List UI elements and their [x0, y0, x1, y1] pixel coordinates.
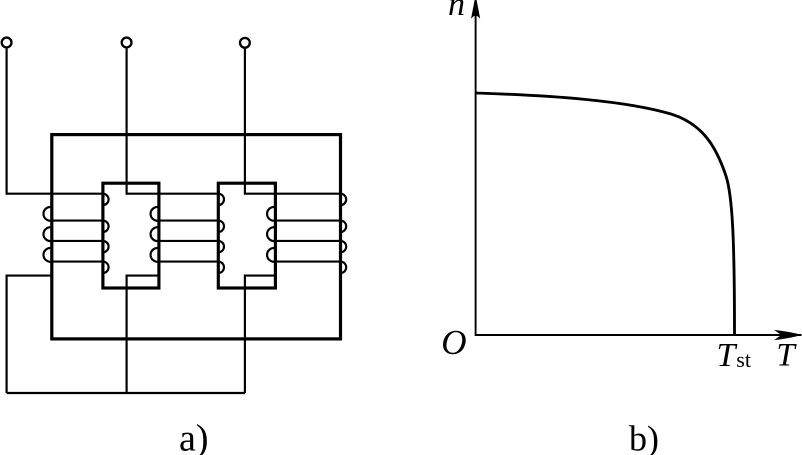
coil 3 right-side turns — [341, 194, 347, 273]
wire coil 3 end to star point — [245, 276, 276, 393]
svg-text:O: O — [441, 323, 466, 362]
coil 1 left-side turns — [43, 207, 51, 262]
wire coil 3 turn 3 — [275, 240, 340, 242]
terminal V1 — [122, 38, 132, 48]
wire coil 2 turn 2 — [159, 220, 218, 222]
terminal U1 — [2, 38, 12, 48]
coil 3 left-side turns — [267, 207, 275, 262]
svg-text:st: st — [736, 347, 751, 372]
wire coil 1 turn 4 — [52, 261, 103, 263]
wire coil 2 turn 3 — [159, 240, 218, 242]
coil 2 right-side turns — [218, 194, 224, 273]
wire terminal V1 to coil 2 top — [127, 48, 219, 194]
stator core outer frame — [52, 135, 341, 339]
svg-text:a): a) — [179, 418, 209, 455]
wire coil 1 turn 3 — [52, 240, 103, 242]
n axis arrowhead — [471, 0, 480, 19]
n axis (speed) — [476, 13, 802, 335]
torque-speed characteristic curve — [476, 93, 735, 334]
wire coil 2 end to star point — [127, 276, 159, 393]
svg-text:b): b) — [629, 418, 659, 455]
svg-text:T: T — [776, 338, 797, 374]
wire coil 3 turn 4 — [275, 261, 340, 263]
wire coil 3 turn 2 — [275, 220, 340, 222]
svg-text:n: n — [448, 0, 465, 23]
wire coil 1 end to star point — [7, 276, 52, 393]
coil 2 left-side turns — [151, 207, 159, 262]
svg-text:T: T — [717, 337, 738, 374]
coil 1 right-side turns — [103, 194, 109, 273]
core window 2 — [218, 183, 275, 288]
wire terminal U1 to coil 1 top — [7, 48, 103, 194]
wire coil 1 turn 2 — [52, 220, 103, 222]
wire terminal W1 to coil 3 top — [245, 48, 341, 194]
star-point bus wire — [7, 392, 245, 394]
wire coil 2 turn 4 — [159, 261, 218, 263]
terminal W1 — [240, 38, 250, 48]
core window 1 — [103, 183, 159, 288]
T axis arrowhead — [774, 330, 802, 340]
